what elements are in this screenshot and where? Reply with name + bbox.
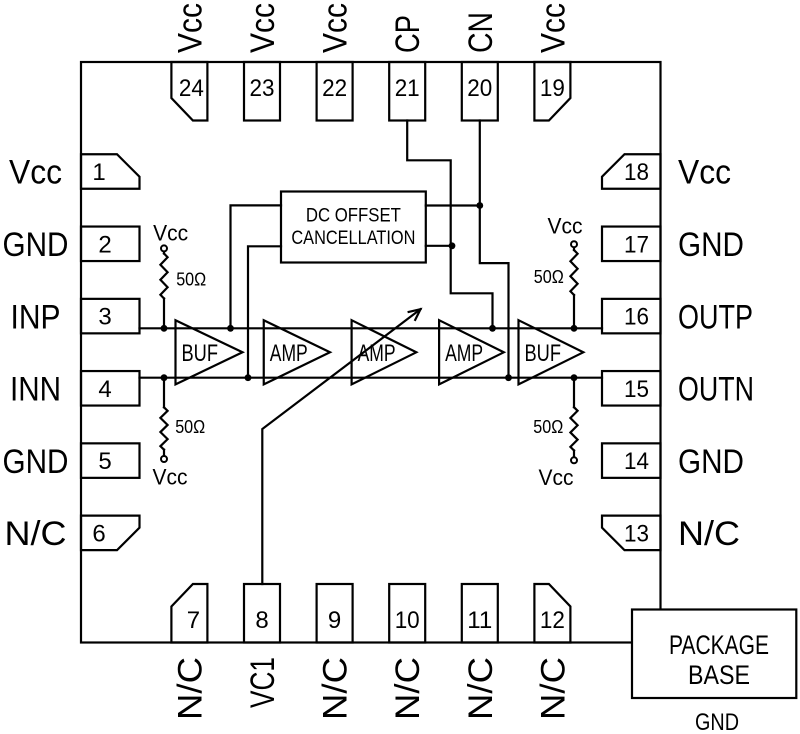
- svg-text:14: 14: [624, 448, 649, 475]
- amplifier AMP2 variable gain (U3): [352, 320, 417, 384]
- svg-text:50Ω: 50Ω: [175, 417, 205, 437]
- svg-text:Vcc: Vcc: [548, 214, 583, 239]
- svg-text:10: 10: [395, 607, 420, 634]
- svg-text:12: 12: [540, 607, 565, 634]
- svg-text:N/C: N/C: [678, 515, 740, 553]
- DC offset cancellation block: [281, 192, 426, 263]
- pin 5: [81, 443, 140, 478]
- svg-text:Vcc: Vcc: [244, 3, 282, 53]
- resistor R1 50ohm INP termination: [163, 251, 165, 253]
- svg-text:18: 18: [624, 159, 649, 186]
- pin 11: [462, 584, 498, 643]
- svg-text:DC OFFSET: DC OFFSET: [306, 205, 401, 227]
- svg-text:8: 8: [255, 607, 268, 634]
- pin 12: [534, 584, 570, 643]
- svg-text:Vcc: Vcc: [153, 221, 188, 246]
- svg-text:AMP: AMP: [358, 340, 396, 367]
- pin 20: [462, 62, 498, 121]
- pin 24: [171, 62, 207, 121]
- svg-text:7: 7: [187, 607, 200, 634]
- pin 17: [602, 227, 661, 261]
- svg-text:N/C: N/C: [317, 657, 355, 720]
- svg-text:OUTP: OUTP: [678, 298, 753, 336]
- svg-text:4: 4: [98, 376, 111, 403]
- svg-text:50Ω: 50Ω: [534, 267, 564, 287]
- svg-text:1: 1: [92, 159, 105, 186]
- package base (exposed pad) box: [632, 610, 796, 699]
- svg-text:GND: GND: [3, 443, 69, 481]
- amplifier AMP1 (U2): [264, 320, 330, 384]
- pin 9: [317, 584, 353, 643]
- svg-text:13: 13: [624, 521, 649, 548]
- wire: pin 20 CN to BUF2 input (bottom rail): [480, 121, 509, 378]
- svg-text:CANCELLATION: CANCELLATION: [291, 227, 415, 249]
- svg-text:19: 19: [540, 75, 565, 102]
- svg-text:9: 9: [328, 607, 341, 634]
- svg-text:15: 15: [624, 376, 649, 403]
- svg-text:Vcc: Vcc: [678, 154, 731, 192]
- svg-text:21: 21: [395, 75, 420, 102]
- svg-text:AMP: AMP: [445, 340, 483, 367]
- svg-text:Vcc: Vcc: [171, 3, 209, 53]
- node: INP / R1 junction: [161, 325, 168, 332]
- node: INN / R2 junction: [161, 374, 168, 381]
- svg-text:INN: INN: [10, 371, 61, 409]
- pin 6: [81, 516, 140, 551]
- pin 10: [389, 584, 425, 643]
- svg-text:Vcc: Vcc: [9, 154, 62, 192]
- buffer BUF2 (U5): [519, 320, 584, 384]
- pin 3: [81, 299, 140, 334]
- resistor R3 50ohm OUTP termination: [573, 247, 575, 250]
- node: feedback / INN rail junction: [245, 374, 252, 381]
- node: feedback / INP rail junction: [227, 325, 234, 332]
- svg-text:GND: GND: [3, 226, 69, 264]
- svg-text:22: 22: [322, 75, 347, 102]
- svg-text:GND: GND: [678, 226, 744, 264]
- svg-text:Vcc: Vcc: [317, 3, 355, 53]
- svg-text:N/C: N/C: [389, 657, 427, 720]
- wire: pin 21 CP to AMP3 input (top rail): [407, 121, 492, 329]
- pin 22: [317, 62, 353, 121]
- svg-text:11: 11: [467, 607, 492, 634]
- pin 21: [389, 62, 425, 121]
- pin 19: [534, 62, 570, 121]
- node: CN / DC offset upper-right junction: [476, 202, 483, 209]
- svg-text:6: 6: [92, 521, 105, 548]
- svg-text:50Ω: 50Ω: [176, 270, 206, 290]
- svg-text:GND: GND: [678, 443, 744, 481]
- wire: DC offset lower-left feedback to INN rail: [248, 246, 281, 377]
- pin 8: [244, 584, 280, 643]
- node: CN wire / BUF2 input junction: [505, 374, 512, 381]
- svg-text:17: 17: [624, 231, 649, 258]
- svg-text:20: 20: [467, 75, 492, 102]
- Vcc terminal circle of R4: [571, 457, 577, 463]
- Vcc terminal circle of R2: [161, 456, 167, 462]
- svg-text:AMP: AMP: [270, 340, 308, 367]
- node: CP wire / AMP3 input junction: [489, 325, 496, 332]
- pin 23: [244, 62, 280, 121]
- node: OUTP / R3 junction: [571, 325, 578, 332]
- resistor R4 50ohm OUTN termination: [573, 378, 575, 408]
- svg-text:INP: INP: [11, 298, 61, 336]
- node: CP / DC offset lower-right junction: [449, 242, 456, 249]
- Vcc terminal circle of R3: [571, 241, 577, 247]
- svg-text:VC1: VC1: [244, 657, 282, 708]
- svg-text:24: 24: [179, 75, 204, 102]
- svg-text:N/C: N/C: [171, 657, 209, 720]
- wire: pin 8 VC1 gain control line: [262, 309, 420, 584]
- svg-text:N/C: N/C: [5, 515, 67, 553]
- svg-text:5: 5: [98, 448, 111, 475]
- Vcc terminal circle of R1: [161, 245, 167, 251]
- svg-text:BASE: BASE: [688, 660, 750, 690]
- svg-text:Vcc: Vcc: [153, 465, 188, 490]
- pin 1: [81, 154, 140, 189]
- svg-text:Vcc: Vcc: [534, 3, 572, 53]
- pin 16: [602, 299, 661, 334]
- svg-text:CN: CN: [462, 12, 500, 53]
- svg-text:2: 2: [98, 231, 111, 258]
- svg-text:Vcc: Vcc: [539, 465, 574, 490]
- node: OUTN / R4 junction: [571, 374, 578, 381]
- svg-text:CP: CP: [389, 15, 427, 53]
- svg-text:GND: GND: [695, 709, 739, 734]
- wire: DC offset upper-right stub to CN line: [426, 204, 480, 206]
- pin 4: [81, 371, 140, 406]
- arrowhead of gain control arrow: [408, 309, 421, 321]
- svg-text:N/C: N/C: [462, 657, 500, 720]
- svg-text:OUTN: OUTN: [678, 371, 754, 409]
- amplifier AMP3 (U4): [439, 320, 504, 384]
- svg-text:N/C: N/C: [534, 657, 572, 720]
- pin 14: [602, 443, 661, 478]
- pin 13: [602, 516, 661, 551]
- pin 18: [602, 154, 661, 189]
- package outline: [81, 62, 661, 643]
- svg-text:3: 3: [98, 304, 111, 331]
- svg-text:BUF: BUF: [525, 340, 562, 367]
- pin 2: [81, 227, 140, 261]
- svg-text:50Ω: 50Ω: [533, 417, 563, 437]
- svg-text:16: 16: [624, 304, 649, 331]
- svg-text:BUF: BUF: [182, 340, 219, 367]
- buffer BUF1 (U1): [176, 320, 243, 384]
- wire INP rail: [140, 327, 603, 329]
- resistor R2 50ohm INN termination: [163, 378, 165, 408]
- wire: DC offset lower-right stub to CP line: [426, 245, 452, 247]
- wire INN rail: [140, 377, 603, 379]
- pin 15: [602, 371, 661, 406]
- wire: DC offset upper-left feedback to INP rail: [231, 205, 282, 328]
- pin 7: [171, 584, 207, 643]
- svg-text:PACKAGE: PACKAGE: [669, 630, 769, 660]
- svg-text:23: 23: [250, 75, 275, 102]
